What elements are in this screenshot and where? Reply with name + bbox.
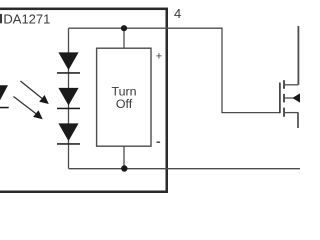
photodiode D3 — [57, 123, 80, 144]
wire: stub top of Turn Off block — [123, 28, 125, 48]
junction dot bottom — [121, 165, 127, 171]
LED (cut off at left image edge) — [0, 85, 9, 108]
MOSFET Q1 channel segments — [283, 80, 285, 117]
svg-text:4: 4 — [174, 6, 181, 21]
IC outline box (left edge off-screen) — [0, 9, 167, 192]
wire: bottom net to right edge — [69, 168, 301, 170]
light arrow 2 — [14, 97, 43, 120]
MOSFET drain lead — [297, 26, 299, 85]
label NDA1271 (partially cut at left edge) — [0, 11, 50, 26]
Turn Off block — [97, 48, 151, 146]
svg-text:Off: Off — [116, 97, 133, 111]
wire: pin 4 net, stack top to gate — [69, 28, 281, 112]
polarity - — [157, 142, 161, 143]
photodiode D1 — [57, 52, 80, 73]
junction dot top — [121, 25, 127, 31]
MOSFET source stub — [284, 112, 299, 114]
svg-text:+: + — [156, 50, 162, 62]
wire: photodiode stack vertical — [68, 28, 70, 168]
MOSFET Q1 gate bar — [279, 83, 281, 114]
MOSFET body arrow — [292, 93, 300, 102]
svg-text:DA1271: DA1271 — [3, 11, 50, 26]
MOSFET drain stub — [284, 84, 299, 86]
photodiode D2 — [57, 88, 80, 109]
wire: stub bottom of Turn Off block — [123, 146, 125, 168]
light arrow 1 — [20, 81, 48, 104]
MOSFET body stub — [284, 97, 294, 99]
MOSFET source lead — [297, 113, 299, 128]
